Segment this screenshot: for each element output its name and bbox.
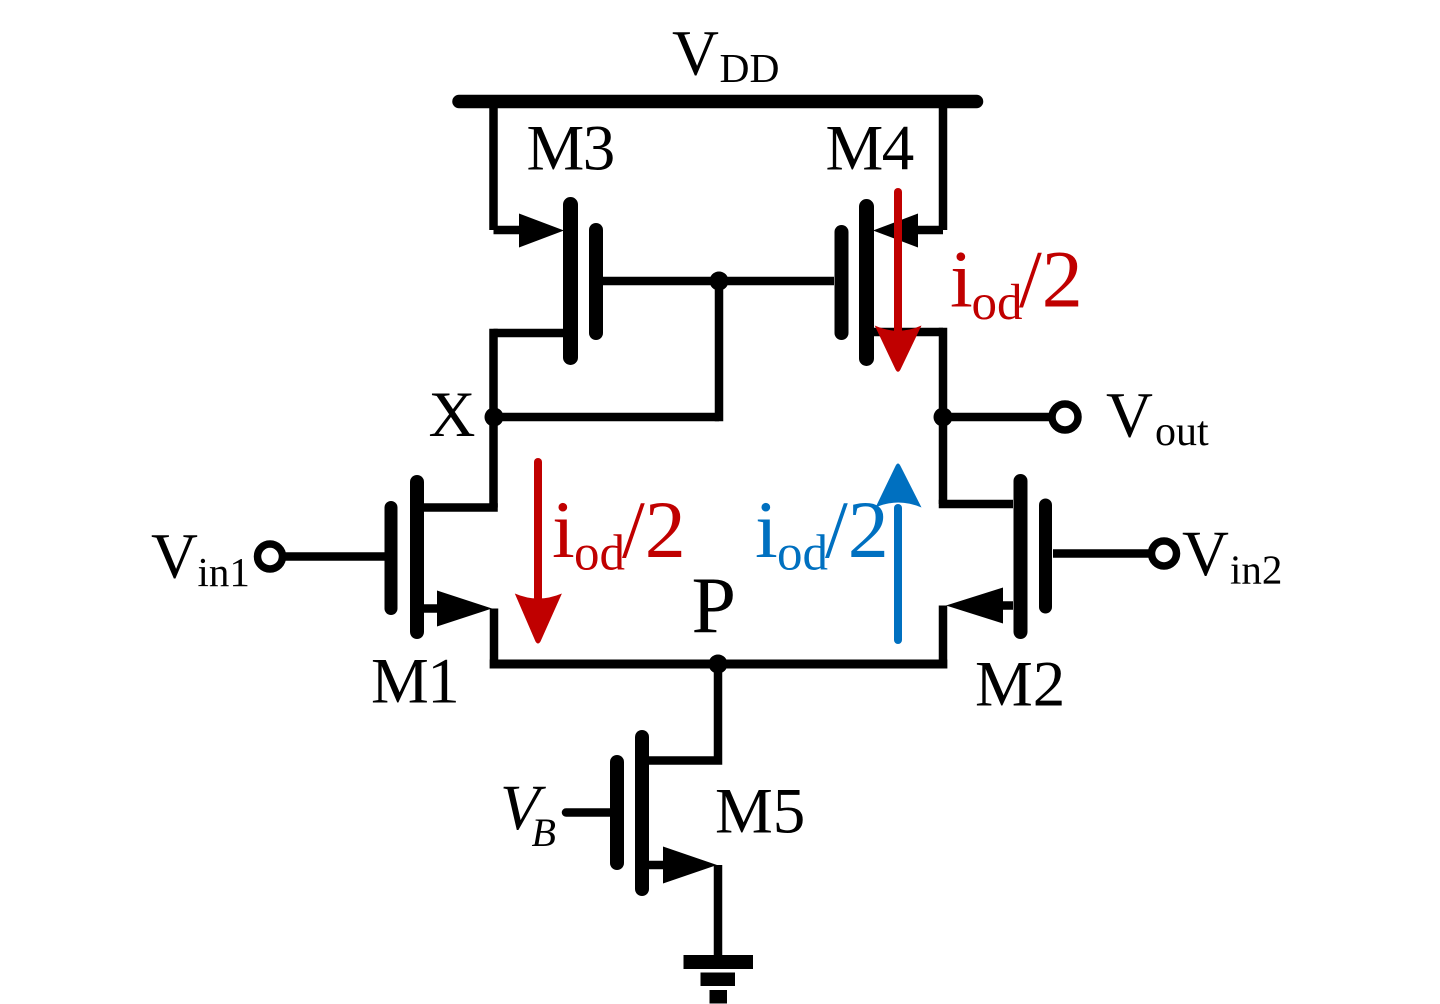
label VB <box>500 772 556 855</box>
svg-text:od: od <box>777 526 828 582</box>
node X dot <box>485 408 504 427</box>
label iod/2 (blue, at M2 branch) <box>755 484 889 582</box>
current arrow iod/2 through M4 (red) <box>875 192 922 372</box>
svg-text:in2: in2 <box>1230 547 1282 593</box>
wire node P to M5 drain <box>649 664 718 761</box>
label Vin1 <box>151 521 250 596</box>
terminal Vin2 <box>1152 541 1177 566</box>
wire VDD to M3 source <box>489 104 498 230</box>
svg-text:P: P <box>692 562 737 650</box>
svg-text:od: od <box>574 526 625 582</box>
wire gate junction to node X <box>715 281 724 421</box>
transistor M1 <box>391 482 492 632</box>
wire M5 source to ground <box>714 865 723 955</box>
wire M1 gate to Vin1 <box>283 552 385 561</box>
svg-text:M4: M4 <box>826 113 914 185</box>
svg-text:/2: /2 <box>1019 234 1083 325</box>
svg-text:V: V <box>672 18 719 90</box>
junction dot mirror gates <box>710 272 729 291</box>
wire VB to M5 gate <box>566 808 610 817</box>
svg-text:M2: M2 <box>975 649 1065 721</box>
current arrow iod/2 at M1 branch (red) <box>515 462 562 644</box>
wire node P rail <box>490 660 948 669</box>
label iod/2 (red, at M4 drain) <box>950 234 1083 332</box>
wire M2 gate to Vin2 <box>1053 549 1152 558</box>
svg-text:od: od <box>972 275 1023 331</box>
current arrow iod/2 at M2 branch (blue) <box>876 464 922 641</box>
svg-text:DD: DD <box>720 45 780 91</box>
terminal Vout <box>1052 404 1078 430</box>
label iod/2 (red, at M1 branch) <box>552 484 686 582</box>
svg-text:i: i <box>755 484 778 575</box>
wire M4 drain <box>874 328 943 337</box>
svg-text:/2: /2 <box>622 484 686 575</box>
svg-text:V: V <box>1106 380 1153 452</box>
wire M3 drain <box>494 329 564 338</box>
transistor M4 <box>842 207 944 359</box>
label VDD <box>672 18 779 92</box>
svg-text:M5: M5 <box>715 776 805 848</box>
transistor M3 <box>494 205 597 358</box>
transistor M2 <box>946 481 1046 632</box>
wire M2 drain <box>939 500 1013 509</box>
wire M3 gate to M4 gate <box>603 277 834 286</box>
wire M1 drain <box>424 503 498 512</box>
power rail VDD <box>459 95 977 109</box>
svg-text:M1: M1 <box>371 646 458 718</box>
wire node X vertical <box>489 329 498 508</box>
svg-text:i: i <box>552 484 575 575</box>
svg-text:i: i <box>950 234 973 325</box>
wire node X horizontal <box>494 413 719 422</box>
svg-text:V: V <box>1182 518 1229 590</box>
svg-text:in1: in1 <box>198 549 250 595</box>
node P dot <box>709 655 728 674</box>
wire Vout node vertical <box>939 328 948 504</box>
node Vout dot <box>934 408 953 427</box>
transistor M5 <box>617 737 717 889</box>
svg-text:M3: M3 <box>527 113 614 185</box>
label Vin2 <box>1182 518 1282 593</box>
terminal Vin1 <box>258 544 283 569</box>
svg-text:X: X <box>429 379 476 451</box>
wire M1 source to node P <box>490 609 499 669</box>
wire VDD to M4 source <box>939 104 948 230</box>
svg-text:V: V <box>151 521 198 593</box>
label Vout <box>1106 380 1209 456</box>
wire to Vout terminal <box>943 413 1049 422</box>
ground <box>684 955 754 1004</box>
wire M2 source to node P <box>939 606 948 669</box>
svg-text:B: B <box>532 810 556 855</box>
svg-text:/2: /2 <box>825 484 889 575</box>
svg-text:out: out <box>1155 409 1209 455</box>
